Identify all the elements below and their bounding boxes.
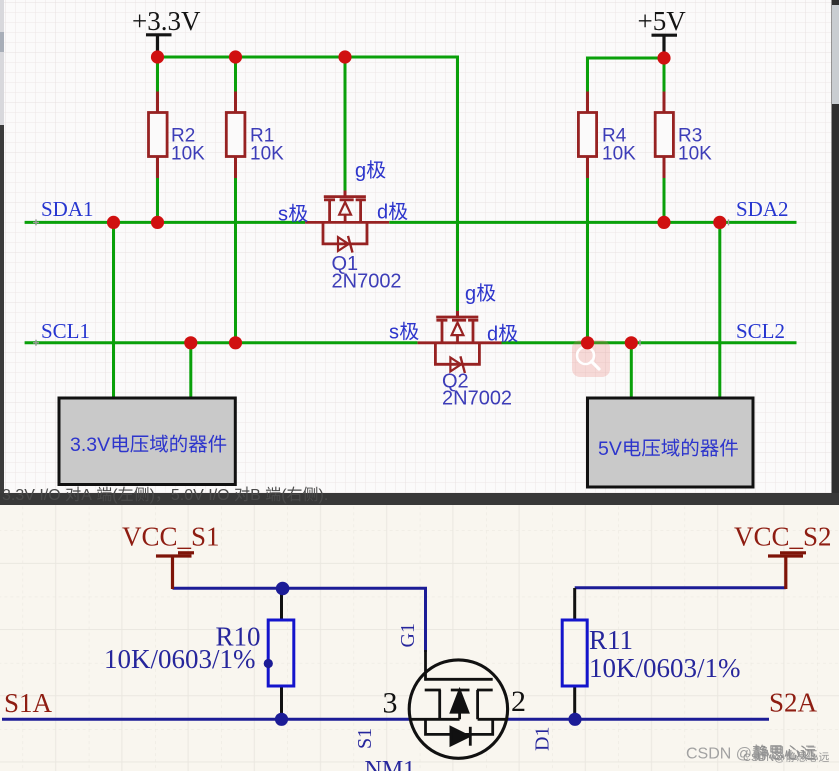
svg-text:VCC_S1: VCC_S1 [122, 522, 220, 552]
svg-text:SCL2: SCL2 [736, 319, 785, 343]
svg-text:+5V: +5V [638, 6, 687, 36]
svg-text:A: A [81, 487, 92, 504]
svg-text:R11: R11 [589, 625, 633, 655]
svg-text:5V: 5V [598, 438, 622, 460]
svg-text:5.0V I/O: 5.0V I/O [171, 487, 230, 504]
svg-text:CSDN@: CSDN@ [743, 752, 785, 764]
svg-text:10K/0603/1%: 10K/0603/1% [589, 653, 741, 683]
svg-text:10K/0603/1%: 10K/0603/1% [104, 644, 256, 674]
svg-text:NM1: NM1 [365, 757, 416, 771]
svg-text:): ) [150, 487, 155, 504]
svg-text:s: s [389, 322, 399, 344]
svg-text:S2A: S2A [769, 688, 818, 718]
svg-text:).: ). [319, 487, 329, 504]
svg-text:g: g [355, 160, 366, 182]
svg-text:2: 2 [511, 685, 526, 718]
svg-text:10K: 10K [678, 144, 712, 165]
svg-text:10K: 10K [250, 144, 284, 165]
svg-text:SDA1: SDA1 [41, 197, 94, 221]
svg-text:d: d [377, 202, 388, 224]
svg-text:d: d [487, 324, 498, 346]
svg-text:2N7002: 2N7002 [332, 271, 402, 293]
svg-text:+3.3V: +3.3V [132, 6, 201, 36]
svg-text:3.3V: 3.3V [70, 434, 110, 456]
svg-text:s: s [278, 204, 288, 226]
svg-text:3: 3 [383, 687, 398, 720]
svg-text:B: B [250, 487, 261, 504]
svg-text:(: ( [112, 487, 118, 504]
svg-text:(: ( [281, 487, 287, 504]
svg-text:g: g [465, 283, 476, 305]
svg-text:SCL1: SCL1 [41, 319, 90, 343]
svg-text:10K: 10K [171, 144, 205, 165]
svg-text:VCC_S2: VCC_S2 [734, 522, 832, 552]
svg-text:D1: D1 [531, 727, 553, 751]
svg-text:S1A: S1A [4, 688, 53, 718]
svg-text:3.3V I/O: 3.3V I/O [2, 487, 61, 504]
svg-text:S1: S1 [354, 728, 376, 749]
svg-text:G1: G1 [397, 623, 419, 647]
svg-text:SDA2: SDA2 [736, 197, 789, 221]
svg-text:10K: 10K [602, 144, 636, 165]
svg-text:2N7002: 2N7002 [442, 388, 512, 410]
